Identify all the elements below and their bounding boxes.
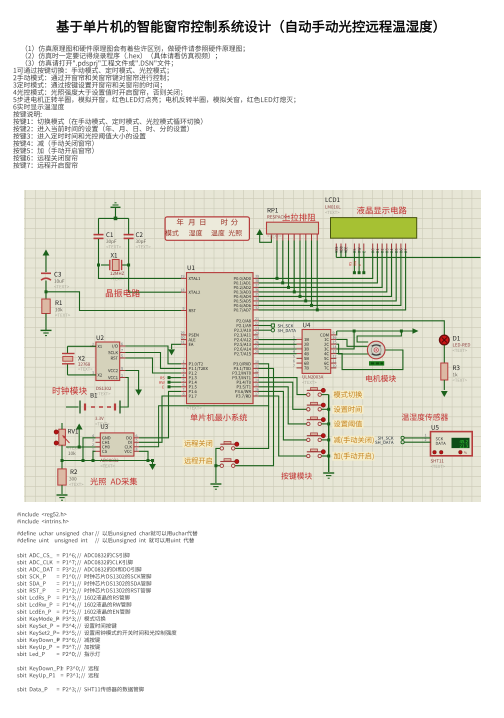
power arrow (RP1) bbox=[256, 229, 271, 242]
ground (R2) bbox=[57, 495, 68, 500]
label 减(手动关闭) bbox=[334, 436, 374, 443]
wires RP1 pins to P0 bus bbox=[276, 234, 319, 311]
value X2 32768 bbox=[78, 363, 90, 366]
text U2 bbox=[96, 392, 110, 395]
capacitor C2 bbox=[124, 218, 134, 265]
table row2 模式湿度温度光照 bbox=[165, 230, 242, 236]
schematic grid bbox=[24, 190, 481, 502]
notes text block bbox=[13, 45, 295, 168]
junction button bus 5 bbox=[327, 455, 330, 458]
annotation table box bbox=[165, 217, 249, 240]
remote open label box bbox=[183, 457, 214, 465]
wire U4 4C to motor bbox=[336, 350, 403, 370]
label humidity sensor 温湿度传感器 bbox=[402, 413, 448, 420]
label RP1 bbox=[268, 208, 278, 213]
wire U4 2C to motor bbox=[336, 344, 368, 354]
junction (79.2,447) bbox=[78, 446, 81, 449]
value RESPACK-8 bbox=[267, 215, 289, 218]
label R3 bbox=[453, 365, 459, 370]
label MCU minimal system 单片机最小系统 bbox=[190, 414, 247, 422]
wires P3.3-P3.7 to buttons bbox=[259, 378, 307, 456]
wire XTAL1 bbox=[99, 265, 182, 278]
arrow down (R3 ground) bbox=[441, 391, 448, 397]
text RV1 bbox=[67, 446, 81, 449]
label U4 bbox=[303, 323, 310, 328]
remote close label box bbox=[183, 440, 214, 448]
push button remote open bbox=[220, 459, 239, 468]
junction (401.4,331) bbox=[400, 330, 403, 333]
label light AD sampling 光照 AD采集 bbox=[90, 478, 137, 486]
wire motor top loop bbox=[357, 331, 401, 342]
button label box 1 bbox=[333, 390, 364, 399]
wires LCD RS RW E bbox=[349, 251, 365, 274]
button label box 2 bbox=[333, 405, 364, 414]
ground (crystal top) bbox=[111, 203, 121, 219]
label R1 bbox=[56, 300, 62, 305]
wire ground rail bottom bbox=[62, 459, 154, 464]
junction (128.6,265) bbox=[127, 264, 130, 267]
button label box 4 bbox=[333, 436, 375, 445]
text X1 bbox=[110, 277, 124, 280]
wire U3 CLK to P3.2 bbox=[139, 406, 269, 447]
arrow down (VCC2) bbox=[135, 390, 142, 396]
resistor R1 bbox=[42, 292, 50, 330]
text U1 bbox=[187, 406, 202, 409]
stepper motor M1 bbox=[367, 341, 385, 359]
label U2 bbox=[97, 335, 104, 340]
text B1 bbox=[95, 422, 109, 425]
ground (remote buttons) bbox=[210, 484, 221, 489]
ground (buttons) bbox=[323, 473, 334, 478]
value DS1302 bbox=[96, 387, 111, 390]
label 模式切换 bbox=[334, 391, 362, 398]
value SHT11 bbox=[431, 459, 444, 462]
microcontroller U1 (AT89C51) bbox=[181, 273, 259, 404]
adc U3 (ADC0832) bbox=[92, 433, 139, 456]
value B1 3.3V bbox=[95, 417, 104, 420]
LCD pins bbox=[335, 244, 407, 258]
label 设置阈值 bbox=[334, 420, 362, 427]
text C3 bbox=[54, 285, 69, 288]
clock chip U2 (DS1302) bbox=[90, 342, 126, 381]
wire P2.0 to D1 bbox=[259, 321, 445, 335]
text U4 bbox=[302, 381, 316, 384]
label U1 bbox=[188, 265, 195, 270]
junction (115.5,218.4) bbox=[114, 217, 118, 221]
wire U3 DI to P1.7 bbox=[139, 396, 181, 442]
text RP1 bbox=[267, 234, 281, 237]
wire U2 VCC2 to arrow bbox=[126, 371, 139, 390]
schematic background bbox=[24, 190, 481, 502]
text U5 bbox=[431, 465, 445, 468]
text C2 bbox=[136, 245, 151, 248]
label motor module 电机模块 bbox=[366, 375, 396, 382]
wires P0 data bus to LCD bbox=[259, 251, 406, 310]
label key module 按键模块 bbox=[281, 472, 312, 479]
label pull-up pack 上拉排阻 bbox=[282, 213, 315, 221]
label X2 bbox=[78, 356, 85, 361]
button label box 3 bbox=[333, 420, 364, 429]
source code listing bbox=[17, 512, 197, 692]
push button key5 bbox=[307, 449, 329, 458]
arrow down (EA) bbox=[168, 349, 175, 355]
label X1 bbox=[111, 253, 117, 258]
power arrow (ADC) bbox=[76, 424, 83, 448]
wire U4 1C to motor bbox=[336, 339, 367, 346]
net stub RS (P1.3) bbox=[160, 376, 181, 379]
wire P3.0 to remote-close bbox=[235, 364, 269, 449]
label LCD circuit 液晶显示电路 bbox=[357, 206, 407, 214]
label C3 bbox=[54, 272, 61, 277]
push button key4 bbox=[307, 433, 329, 442]
value C2 30pF bbox=[136, 240, 146, 244]
label U5 bbox=[432, 425, 439, 430]
button ground bus bbox=[328, 395, 330, 472]
junction (354.1,331) bbox=[353, 330, 356, 333]
battery B1 bbox=[66, 378, 128, 414]
label R2 bbox=[71, 469, 77, 474]
label remote close 远程关闭 bbox=[184, 440, 212, 447]
text R1 bbox=[55, 314, 70, 317]
value C1 30pF bbox=[106, 240, 116, 244]
button label box 5 bbox=[333, 452, 375, 461]
net stub E (P1.5) bbox=[162, 385, 181, 388]
wire R3 to ground bbox=[443, 380, 445, 390]
ground (reset) bbox=[41, 330, 52, 335]
terminal SH_DATA (near U1) bbox=[259, 329, 296, 333]
wire XTAL2 bbox=[129, 265, 181, 292]
text X2 bbox=[78, 368, 92, 371]
terminal SH_SCK (near U1) bbox=[259, 324, 294, 328]
potentiometer RV1 bbox=[54, 423, 69, 461]
net stub RW (P1.4) bbox=[159, 381, 181, 384]
wire U3 CS bbox=[92, 451, 96, 462]
text D1 bbox=[453, 349, 467, 352]
wire U3 VCC bbox=[139, 451, 150, 462]
value C3 10uF bbox=[54, 279, 64, 282]
value R1 10k bbox=[55, 308, 62, 312]
crystal X1 bbox=[101, 260, 129, 271]
push button key3 bbox=[307, 417, 329, 426]
label 加(手动开启) bbox=[334, 453, 374, 460]
wire P3.1 to remote-open bbox=[235, 368, 274, 465]
sensor U5 (SHT11) bbox=[431, 432, 473, 456]
table row1 年月日时分 bbox=[177, 219, 238, 226]
text R3 bbox=[453, 379, 467, 382]
value R2 300 bbox=[69, 477, 76, 480]
push button key2 bbox=[307, 402, 329, 411]
value RV1 10k bbox=[68, 451, 75, 455]
resistor R3 bbox=[441, 363, 448, 380]
terminal SH_SCK (U5) bbox=[378, 434, 431, 440]
junction (46,291.8) bbox=[45, 290, 48, 293]
title text bbox=[56, 20, 436, 33]
label B1 bbox=[91, 393, 97, 398]
text C1 bbox=[106, 245, 121, 248]
text U3 bbox=[100, 464, 114, 467]
wire motor supply rail bbox=[337, 328, 419, 334]
label C2 bbox=[136, 232, 143, 237]
resistor pack RP1 bbox=[267, 222, 319, 239]
wire U4 3C to motor bbox=[336, 331, 354, 349]
wire U2 RST to P1.2 bbox=[126, 358, 182, 373]
label U3 bbox=[101, 424, 108, 429]
junction (62,460.5) bbox=[61, 459, 64, 462]
wire LCD power rail bbox=[336, 256, 480, 258]
junction (98.5,265) bbox=[97, 264, 100, 267]
wire EA bbox=[172, 344, 181, 349]
junction button bus 4 bbox=[327, 438, 330, 441]
motor value box bbox=[369, 361, 384, 365]
wire D1 to R3 bbox=[443, 345, 445, 363]
label D1 bbox=[453, 336, 460, 341]
capacitor C3 bbox=[41, 273, 51, 292]
junction button bus 3 bbox=[327, 422, 330, 425]
wires P2.4-P2.7 to U4 bbox=[259, 340, 297, 354]
value ADC0832 bbox=[100, 459, 118, 462]
wire U3 GND bbox=[82, 438, 96, 462]
wire U2 SCLK to P1.1 bbox=[126, 353, 182, 369]
crystal X2 bbox=[62, 346, 96, 375]
wire RST bbox=[46, 292, 181, 311]
text R2 bbox=[69, 483, 83, 486]
arrow down (rail) bbox=[149, 464, 156, 470]
junction button bus 2 bbox=[327, 408, 330, 411]
label RV1 bbox=[68, 429, 78, 434]
led D1 bbox=[440, 335, 450, 345]
power arrow (reset) bbox=[43, 250, 50, 273]
push button remote close bbox=[220, 441, 239, 450]
resistor R2 bbox=[58, 461, 66, 495]
label LCD1 bbox=[326, 197, 340, 202]
wire C1-C2 top bbox=[99, 217, 129, 219]
value LM016L bbox=[325, 205, 340, 208]
darlington array U4 (ULN2003A) bbox=[293, 330, 336, 374]
wire U3 DO to P1.6 bbox=[139, 391, 181, 437]
text LCD1 bbox=[325, 211, 339, 214]
label crystal circuit 晶振电路 bbox=[106, 289, 140, 297]
wire remote buttons to ground bbox=[214, 448, 220, 483]
label remote open 远程开启 bbox=[184, 457, 212, 464]
wire U4 COM to supply bbox=[335, 331, 337, 335]
label C1 bbox=[106, 232, 113, 237]
label clock module 时钟模块 bbox=[53, 387, 87, 395]
wire U2 I/O to P1.0 bbox=[126, 346, 182, 364]
push button key1 bbox=[307, 388, 329, 397]
value R3 1k bbox=[453, 373, 458, 377]
label 设置时间 bbox=[334, 406, 362, 413]
wire RV1 wiper to U3 CH0 bbox=[66, 446, 100, 448]
value X1 12MHZ bbox=[110, 272, 124, 275]
terminal SH_DATA (U5) bbox=[375, 438, 430, 444]
LCD screen LM016L bbox=[331, 218, 417, 239]
capacitor C1 bbox=[94, 218, 104, 265]
value ULN2003A bbox=[303, 375, 324, 378]
value LED-RED bbox=[453, 343, 470, 346]
